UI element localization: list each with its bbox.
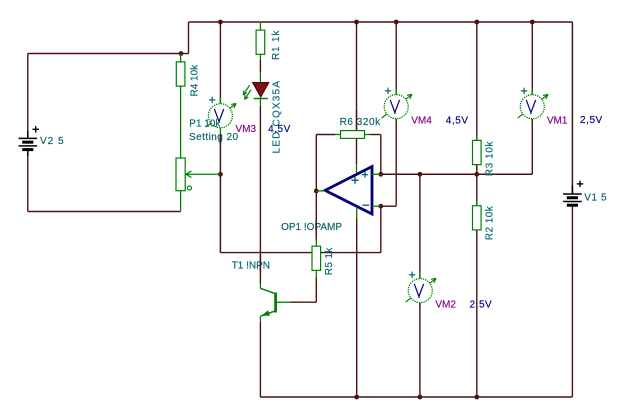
svg-text:R6 320k: R6 320k xyxy=(340,117,382,128)
svg-text:VM3: VM3 xyxy=(236,124,257,135)
svg-text:Setting 20: Setting 20 xyxy=(189,132,239,143)
svg-text:T1 !NPN: T1 !NPN xyxy=(232,261,270,272)
svg-text:2,5V: 2,5V xyxy=(580,115,603,126)
svg-text:4,5V: 4,5V xyxy=(446,116,469,127)
svg-text:P1 10k: P1 10k xyxy=(189,119,221,130)
svg-text:LED CQX35A: LED CQX35A xyxy=(271,80,282,154)
svg-text:OP1 !OPAMP: OP1 !OPAMP xyxy=(281,222,342,233)
svg-text:VM4: VM4 xyxy=(411,116,432,127)
svg-text:R2 10k: R2 10k xyxy=(485,205,496,240)
svg-text:R3 10k: R3 10k xyxy=(485,141,496,177)
svg-text:VM1: VM1 xyxy=(547,116,568,127)
svg-text:V1 5: V1 5 xyxy=(584,193,607,204)
svg-text:V2 5: V2 5 xyxy=(40,136,65,147)
svg-text:R4 10k: R4 10k xyxy=(189,64,200,97)
svg-text:R1 1k: R1 1k xyxy=(271,30,282,60)
svg-text:R5 1k: R5 1k xyxy=(324,247,335,275)
svg-text:2,5V: 2,5V xyxy=(470,299,493,310)
svg-text:VM2: VM2 xyxy=(435,299,456,310)
